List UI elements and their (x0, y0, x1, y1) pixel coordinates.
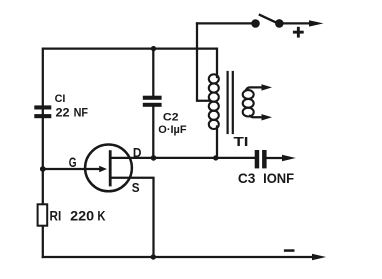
svg-text:CI: CI (55, 93, 66, 105)
svg-text:IONF: IONF (263, 171, 294, 186)
svg-text:TI: TI (234, 134, 249, 149)
svg-text:NF: NF (74, 106, 88, 120)
svg-text:22: 22 (56, 106, 70, 120)
svg-text:K: K (97, 208, 106, 224)
svg-text:220: 220 (70, 208, 94, 224)
svg-text:S: S (132, 180, 140, 195)
svg-text:O·IµF: O·IµF (158, 124, 186, 136)
svg-text:G: G (69, 155, 77, 170)
svg-text:D: D (133, 146, 142, 160)
svg-text:C2: C2 (163, 111, 179, 123)
svg-text:C3: C3 (238, 171, 256, 186)
svg-text:RI: RI (50, 208, 62, 224)
